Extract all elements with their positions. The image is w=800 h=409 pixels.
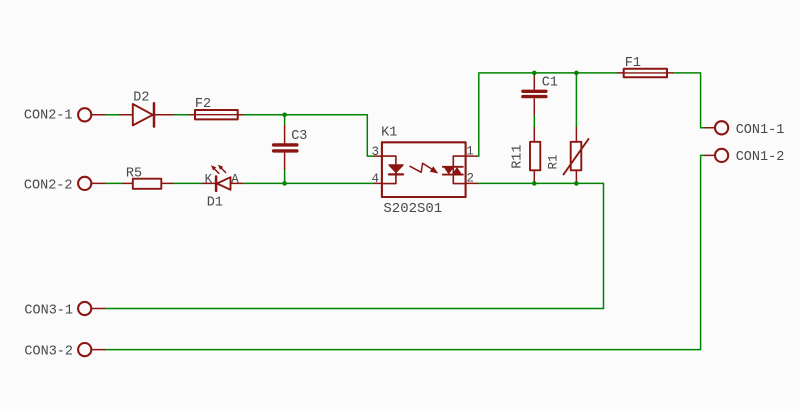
svg-text:R5: R5 — [126, 166, 142, 181]
junction node at R1 bottom — [574, 181, 579, 186]
capacitor C1 — [523, 91, 546, 96]
pin stub F1 right — [667, 72, 673, 74]
pin stub R1 top — [575, 128, 577, 142]
svg-text:A: A — [231, 173, 239, 187]
svg-text:CON2-1: CON2-1 — [24, 108, 73, 123]
junction node at F2/C3 — [282, 113, 287, 118]
pin stub K1 pin4 — [375, 182, 382, 184]
K1 input bracket — [382, 156, 396, 184]
wire CON1-2 to CON3-2 — [105, 155, 706, 349]
wire F2 to K1 pin3 — [244, 115, 375, 156]
wire junction to C3 top — [284, 115, 286, 126]
junction node at R11 bottom — [532, 181, 537, 186]
pin stub C3 bottom — [284, 153, 286, 169]
resistor R11 — [530, 142, 540, 171]
opto-triac U/K1 body — [382, 142, 466, 197]
svg-text:1: 1 — [466, 145, 474, 159]
junction node at C3/D1 line — [282, 181, 287, 186]
connector pin CON1-2 — [715, 149, 728, 162]
pin stub D2 cathode — [154, 114, 174, 116]
fuse F2 — [195, 110, 238, 119]
pin stub CON3-1 — [91, 308, 104, 310]
junction node at C1 top — [532, 71, 537, 76]
K1 output bracket — [453, 156, 465, 184]
svg-text:2: 2 — [467, 172, 475, 186]
pin stub CON1-1 — [705, 127, 715, 129]
K1 internal LED — [389, 165, 403, 173]
wire R5 to D1 — [173, 182, 203, 184]
svg-text:CON2-2: CON2-2 — [24, 178, 73, 193]
LED D1 — [211, 165, 231, 191]
connector pin CON2-2 — [78, 177, 91, 190]
svg-text:3: 3 — [371, 145, 379, 159]
connector pin CON1-1 — [715, 121, 728, 134]
diode D2 — [133, 103, 154, 126]
wire junction to R1 top — [575, 73, 577, 128]
wire C3 bottom to node — [284, 169, 286, 184]
svg-text:D2: D2 — [133, 90, 149, 105]
pin stub F2 left — [189, 114, 196, 116]
svg-text:C1: C1 — [542, 76, 558, 91]
wire K1 pin1 riser — [477, 73, 618, 156]
pin stub R5 right — [161, 182, 172, 184]
svg-text:4: 4 — [371, 172, 379, 186]
connector pin CON3-2 — [78, 343, 91, 356]
wire D1 to K1 pin4 — [242, 182, 374, 184]
pin stub D1 cathode — [203, 182, 217, 184]
pin stub R11 top — [533, 128, 535, 142]
svg-text:F1: F1 — [625, 56, 641, 71]
pin stub D2 anode — [120, 114, 133, 116]
svg-text:S202S01: S202S01 — [383, 201, 442, 217]
K1 triac — [443, 166, 463, 168]
wire C1 to R11 — [533, 114, 535, 127]
junction node at R1 top — [574, 71, 579, 76]
svg-text:CON3-2: CON3-2 — [24, 344, 73, 359]
wire net CON2-1/D2 segment — [105, 114, 120, 116]
wire D2/F2 segment — [174, 114, 190, 116]
pin stub CON2-1 — [91, 114, 104, 116]
svg-text:CON3-1: CON3-1 — [24, 304, 73, 319]
fuse F1 — [624, 69, 667, 78]
pin stub CON1-2 — [705, 154, 715, 156]
pin stub K1 pin3 — [375, 155, 382, 157]
svg-text:D1: D1 — [207, 195, 223, 210]
pin stub C1 top — [533, 75, 535, 90]
varistor R1 — [564, 139, 589, 175]
svg-text:K1: K1 — [381, 126, 397, 141]
svg-text:F2: F2 — [195, 97, 211, 112]
pin stub R5 left — [123, 182, 133, 184]
pin stub F1 left — [618, 72, 625, 74]
pin stub F2 right — [238, 114, 244, 116]
pin stub CON2-2 — [91, 182, 104, 184]
K1 coupling arrow — [410, 163, 432, 172]
pin stub R1 bottom — [575, 170, 577, 183]
pin stub C1 bottom — [533, 99, 535, 115]
connector pin CON3-1 — [78, 302, 91, 315]
svg-text:CON1-2: CON1-2 — [736, 150, 785, 165]
capacitor C3 — [274, 145, 297, 151]
pin stub K1 pin2 — [466, 182, 478, 184]
pin stub CON3-2 — [91, 349, 104, 351]
resistor R5 — [133, 179, 162, 189]
wire CON2-2 to R5 — [105, 182, 124, 184]
svg-text:R11: R11 — [510, 144, 525, 168]
wire K1 pin2 to CON3-1 — [105, 183, 604, 308]
svg-text:CON1-1: CON1-1 — [736, 123, 785, 138]
svg-text:R1: R1 — [547, 154, 561, 169]
pin stub C3 top — [284, 126, 286, 143]
pin stub R11 bottom — [533, 170, 535, 183]
svg-text:C3: C3 — [291, 129, 307, 144]
pin stub D1 anode — [231, 182, 243, 184]
wire F1 to CON1-1 — [673, 73, 705, 128]
pin stub K1 pin1 — [466, 155, 478, 157]
svg-text:K: K — [205, 173, 213, 187]
connector pin CON2-1 — [78, 108, 91, 121]
